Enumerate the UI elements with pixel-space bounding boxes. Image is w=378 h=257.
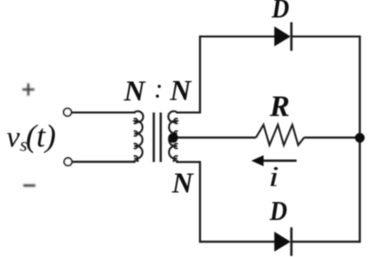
svg-text:i: i [269, 162, 280, 193]
secondary winding curls [174, 119, 178, 161]
svg-text:N: N [123, 76, 146, 108]
wire resistor to right node [304, 137, 360, 139]
transformer secondary winding [168, 111, 177, 162]
wire bottom horizontal right part [291, 241, 360, 243]
wire bottom horizontal left part [200, 241, 275, 243]
diode D top [274, 22, 291, 51]
wire secondary top lead [176, 111, 201, 113]
svg-text:N: N [171, 167, 194, 199]
source terminal top [64, 108, 72, 116]
wire primary top lead [72, 111, 136, 113]
output node dot [355, 133, 365, 143]
svg-text::: : [154, 74, 163, 104]
svg-text:D: D [269, 196, 287, 226]
svg-text:R: R [269, 90, 290, 123]
wire top horizontal left part [200, 35, 275, 37]
transformer core [153, 113, 155, 163]
wire primary bottom lead [72, 161, 136, 163]
current arrow i [251, 155, 296, 166]
wire secondary bottom lead [176, 161, 201, 163]
minus sign of source [23, 184, 35, 186]
svg-text:N: N [169, 75, 192, 107]
wire right vertical [359, 36, 361, 243]
resistor R zigzag [256, 125, 304, 145]
wire center tap to resistor [173, 137, 256, 139]
svg-text:D: D [271, 0, 289, 24]
plus sign of source [22, 83, 34, 95]
wire left vertical upper segment [199, 36, 201, 113]
wire left vertical lower segment [199, 162, 201, 243]
diode D bottom [274, 227, 291, 256]
primary winding curls [134, 119, 138, 161]
svg-text:vs(t): vs(t) [7, 117, 56, 156]
wire top horizontal right part [291, 35, 360, 37]
transformer primary winding [134, 111, 143, 162]
center tap node dot [168, 133, 178, 143]
source terminal bottom [64, 158, 72, 166]
